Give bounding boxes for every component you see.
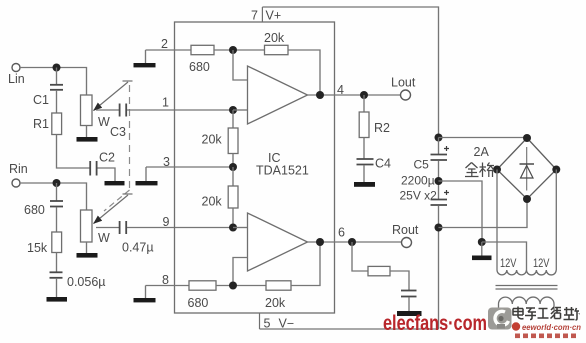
node zobel (348, 238, 356, 246)
svg-text:C5: C5 (414, 158, 430, 172)
resistor 15k (56, 208, 58, 233)
svg-text:Lin: Lin (8, 72, 25, 86)
svg-text:0.056µ: 0.056µ (67, 275, 105, 289)
wire amp1 output (308, 94, 401, 96)
node center tap (478, 238, 486, 246)
svg-text:7: 7 (251, 9, 258, 23)
wire 680b to 20kb (216, 285, 266, 287)
logo eeworld CJK text (电子工程世界) (513, 307, 580, 321)
wiper W2 arrow (94, 195, 129, 224)
node out2 (316, 238, 324, 246)
wire 680 to 20k (214, 49, 265, 51)
wire mid to center tap (439, 181, 483, 242)
svg-text:C2: C2 (99, 151, 115, 165)
capacitor C2 (89, 161, 91, 176)
wire Rin to pot2 (20, 183, 87, 210)
op-amp A2 (248, 213, 308, 271)
capacitor C4 (363, 138, 365, 159)
svg-text:20k: 20k (202, 195, 223, 209)
node pin1 (229, 106, 237, 114)
ground C2 (105, 181, 125, 185)
wire pot2 to ground (86, 242, 88, 253)
label 2A bridge CJK (全桥) (465, 163, 494, 178)
svg-text:2: 2 (161, 37, 168, 51)
logo eeworld url (512, 322, 520, 330)
capacitor 0.47u (119, 221, 121, 234)
node V+ tap (435, 134, 443, 142)
wire wiper2 to cap (96, 227, 119, 229)
wire bridge right down (555, 170, 557, 271)
node out1 (316, 91, 324, 99)
terminal Rout (402, 238, 412, 248)
wiper W1 arrow (94, 82, 129, 111)
svg-text:Rin: Rin (9, 162, 28, 176)
resistor 680 bottom (189, 281, 216, 290)
svg-text:680: 680 (188, 296, 209, 310)
wire pin1 (127, 109, 233, 111)
svg-text:R2: R2 (374, 121, 390, 135)
svg-text:4: 4 (337, 83, 344, 97)
wire 20k to output (288, 50, 320, 95)
ground C4 (354, 182, 375, 187)
ground 0.056u (47, 297, 68, 302)
wire R1 to C2 (57, 135, 90, 169)
terminal Lin (12, 64, 20, 72)
wire inv2 step (233, 258, 248, 286)
svg-text:0.47µ: 0.47µ (122, 241, 154, 255)
wire wiper to C3 (96, 109, 119, 111)
resistor zobel (368, 266, 390, 275)
svg-text:C1: C1 (33, 93, 49, 107)
resistor 680 top (191, 45, 214, 54)
pin 3 ground (136, 181, 158, 185)
wire zobel R to C (390, 271, 409, 290)
svg-text:W: W (98, 115, 110, 129)
resistor R2 (363, 95, 365, 112)
svg-text:20k: 20k (264, 31, 285, 45)
svg-text:V+: V+ (266, 9, 282, 23)
terminal Lout (401, 90, 411, 100)
capacitor C1 (56, 68, 58, 85)
potentiometer P2 (81, 210, 93, 242)
pin 5 V- label box (259, 313, 261, 329)
wire C5 to V- rail (438, 206, 440, 329)
transformer core (496, 285, 558, 287)
node V- tap (435, 224, 443, 232)
svg-text:680: 680 (24, 203, 45, 217)
ganged link dashed (129, 85, 131, 190)
transformer T1 primary (499, 297, 555, 304)
wire amp2 output (308, 241, 402, 243)
op-amp U1 (175, 22, 335, 313)
wire C2 to ground (98, 168, 116, 181)
wire ct to ground (481, 242, 483, 256)
wire C4 to ground (363, 166, 365, 183)
terminal Rin (12, 179, 20, 187)
svg-text:C4: C4 (375, 157, 391, 171)
wire V+ rail (262, 7, 438, 138)
resistor 20k bottom (266, 281, 291, 290)
wire pin1 to amp (233, 109, 248, 111)
wire pin8 (146, 285, 190, 287)
capacitor 680 (56, 183, 58, 201)
wire 20kb to out2 (291, 242, 320, 286)
ground zobel (397, 311, 422, 316)
svg-text:C3: C3 (110, 125, 126, 139)
wire pin9 (127, 227, 233, 229)
potentiometer P1 (81, 95, 93, 126)
capacitor C5 lower (444, 190, 449, 195)
svg-text:15k: 15k (27, 241, 48, 255)
svg-text:1: 1 (162, 96, 169, 110)
svg-text:20k: 20k (265, 296, 286, 310)
wire bridge left down (496, 170, 498, 271)
svg-text:Lout: Lout (391, 76, 416, 90)
wire to ground (56, 279, 58, 297)
svg-text:R1: R1 (33, 117, 49, 131)
node bridge left (493, 166, 501, 174)
wire pin9 to amp2 (233, 227, 248, 229)
logo eeworld slogan (515, 334, 576, 339)
svg-text:2A: 2A (474, 145, 490, 159)
node bridge top (523, 134, 531, 142)
pin 7 V+ label box (261, 7, 263, 22)
wire Lin to pot (20, 68, 87, 96)
bridge rectifier 2A (497, 138, 556, 199)
wire zobel down (352, 242, 368, 271)
wire pot1 to ground (86, 126, 88, 138)
wire pin3 (146, 166, 233, 168)
resistor 20k vert2 (232, 167, 234, 186)
svg-text:680: 680 (189, 60, 210, 74)
resistor 20k top (265, 45, 289, 54)
svg-text:9: 9 (163, 215, 170, 229)
node Rin junction (53, 179, 61, 187)
wire zobel C down (408, 298, 410, 312)
svg-text:elecfans·com: elecfans·com (383, 312, 487, 335)
resistor R1 (56, 91, 58, 113)
ground pot1 (77, 137, 98, 142)
pin 8 ground (134, 298, 156, 302)
svg-text:6: 6 (338, 226, 345, 240)
node pin9 (229, 224, 237, 232)
node bridge right (552, 166, 560, 174)
wire bridge bottom to V- (439, 199, 528, 228)
op-amp A1 (248, 66, 308, 124)
logo eeworld icon (488, 308, 512, 330)
wire to bridge top (439, 137, 528, 139)
diode inside bridge (526, 147, 528, 191)
svg-text:12V: 12V (533, 258, 550, 270)
node C5 mid (438, 161, 440, 199)
capacitor 0.056u (56, 253, 58, 273)
svg-text:eeworld·com·cn: eeworld·com·cn (522, 322, 581, 332)
capacitor C3 (119, 104, 121, 117)
capacitor C5 upper (438, 138, 440, 155)
svg-text:Rout: Rout (392, 223, 419, 237)
svg-text:12V: 12V (500, 258, 517, 270)
node pin3 (229, 163, 237, 171)
ground center tap (472, 256, 492, 261)
capacitor zobel (401, 290, 417, 292)
svg-text:20k: 20k (202, 133, 223, 147)
node bridge bottom (523, 195, 531, 203)
wire ct to transformer (482, 242, 527, 270)
wire inv input step (233, 50, 248, 80)
node R2 top (360, 91, 368, 99)
node fb1 (229, 46, 237, 54)
resistor 20k vert1 (232, 110, 234, 128)
node Lin junction (53, 64, 61, 72)
pin 2 ground (134, 63, 156, 67)
svg-text:W: W (98, 231, 110, 245)
node fb2 (229, 282, 237, 290)
wire V- rail (260, 328, 439, 330)
ground pot2 (77, 253, 98, 258)
svg-text:2200µ: 2200µ (401, 174, 435, 188)
wire pin2 (146, 49, 192, 51)
svg-text:TDA1521: TDA1521 (256, 164, 309, 178)
